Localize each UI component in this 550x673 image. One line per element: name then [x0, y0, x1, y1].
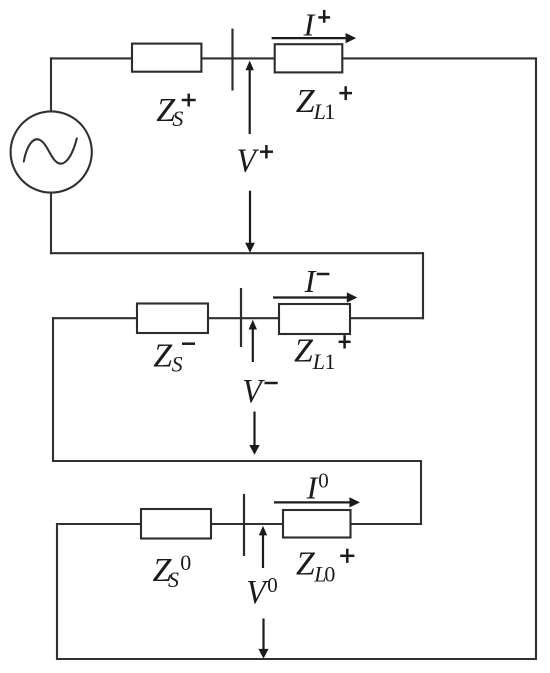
resistor ZL1+ (box) — [275, 44, 343, 72]
wire top rail (positive loop) — [51, 57, 536, 59]
svg-text:I: I — [304, 263, 317, 299]
current arrow I+ — [272, 33, 357, 43]
label V0 — [246, 573, 278, 611]
label V+ — [237, 143, 274, 180]
AC source (circle) — [11, 111, 92, 192]
wire connector negative-to-zero loop — [420, 461, 422, 524]
svg-text:1: 1 — [324, 99, 335, 124]
label ZS+ — [156, 92, 195, 131]
wire zero-loop main rail — [57, 523, 421, 525]
voltage arrow V- upper (head up at rail) — [249, 320, 257, 362]
label I+ — [303, 6, 331, 42]
fault-point bar (zero loop) — [243, 494, 245, 556]
svg-text:Z: Z — [294, 333, 314, 370]
resistor ZS- (box) — [137, 304, 208, 334]
wire positive-loop bottom rail — [51, 252, 423, 254]
label I- — [304, 263, 330, 299]
wire source top lead — [50, 58, 52, 112]
voltage arrow V- lower (head down above bottom rail) — [249, 412, 259, 455]
svg-text:0: 0 — [318, 468, 329, 492]
svg-text:S: S — [172, 106, 183, 131]
wire outer bottom rail — [57, 658, 536, 660]
svg-text:S: S — [168, 567, 179, 592]
wire source bottom lead — [50, 192, 52, 253]
svg-text:Z: Z — [153, 338, 173, 375]
svg-text:0: 0 — [267, 573, 278, 597]
svg-text:Z: Z — [296, 545, 316, 582]
label ZS- — [153, 338, 195, 377]
voltage arrow V0 upper (head up at rail) — [259, 526, 267, 568]
svg-text:S: S — [172, 352, 183, 377]
wire negative-loop left vertical — [52, 318, 54, 461]
fault-point bar (positive loop) — [231, 29, 233, 91]
resistor ZL1- (box) — [279, 304, 350, 334]
wire zero-loop left vertical — [56, 524, 58, 659]
svg-text:0: 0 — [324, 562, 335, 587]
current arrow I- — [273, 292, 357, 302]
svg-text:I: I — [303, 6, 316, 42]
voltage arrow V0 lower (head down at bottom rail) — [258, 619, 268, 659]
svg-text:1: 1 — [325, 349, 336, 374]
resistor ZL0 (box) — [283, 510, 351, 538]
label V- — [242, 373, 277, 410]
svg-text:I: I — [306, 470, 319, 506]
label ZL1+ (middle) — [294, 333, 351, 375]
fault-point bar (negative loop) — [240, 288, 242, 347]
current arrow I0 — [274, 497, 360, 507]
wire outer right vertical — [535, 58, 537, 659]
voltage arrow V+ upper (head up at rail) — [246, 61, 254, 135]
resistor ZS0 (box) — [141, 509, 211, 539]
wire connector positive-to-negative loop — [422, 253, 424, 318]
label ZL0+ — [296, 545, 355, 586]
voltage arrow V+ lower (head down at bottom rail) — [245, 191, 255, 253]
AC source sine symbol — [24, 139, 77, 164]
svg-text:L: L — [312, 349, 325, 374]
label I0 — [306, 468, 329, 505]
wire negative-loop bottom rail — [53, 460, 421, 462]
svg-text:0: 0 — [180, 550, 191, 575]
label ZL1+ (top) — [296, 83, 352, 124]
resistor ZS+ (box) — [132, 44, 201, 72]
wire negative-loop main rail — [53, 317, 423, 319]
label ZS0 — [153, 550, 192, 592]
